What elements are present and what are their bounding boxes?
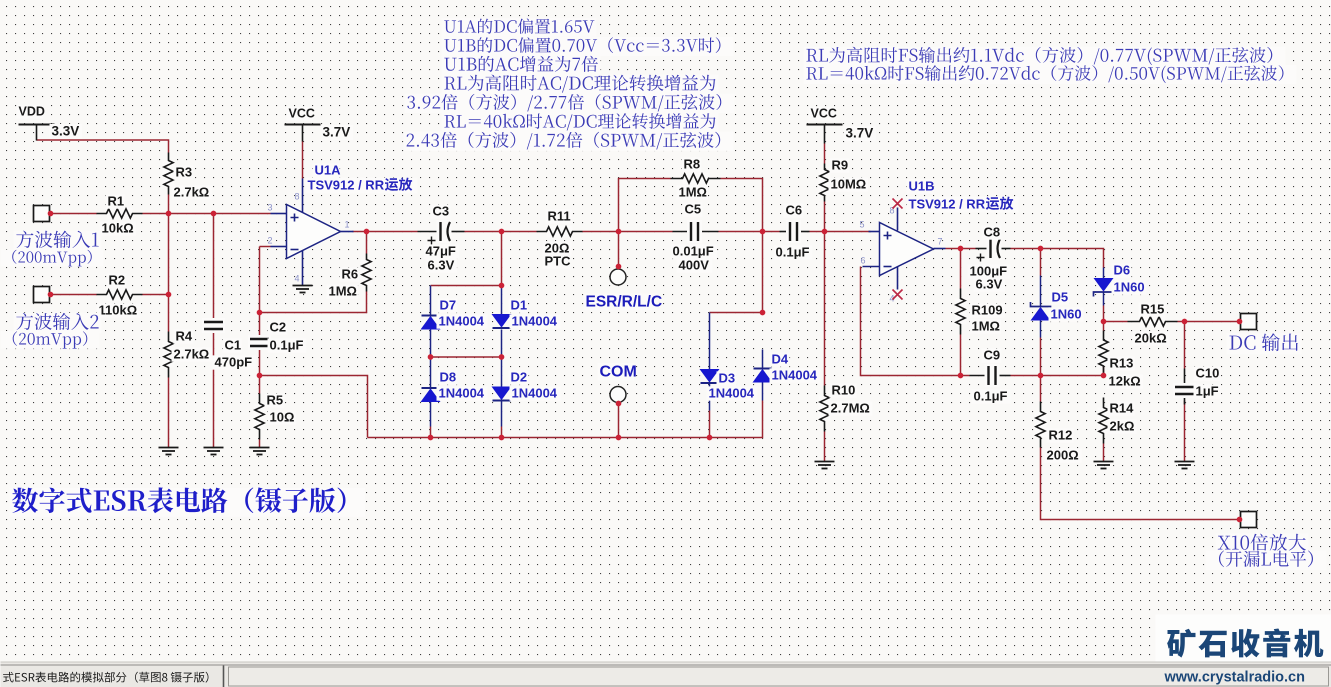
op-amp U1B TSV912 (859, 179, 945, 304)
svg-text:6.3V: 6.3V (428, 258, 455, 273)
wire C1 to ground (213, 330, 215, 448)
wire R109 top (960, 249, 962, 289)
wire U1B output to C8 (946, 248, 976, 250)
resistor R4 2.7k (163, 329, 213, 378)
svg-text:D1: D1 (511, 298, 528, 313)
capacitor C5 0.01uF 400V (671, 202, 719, 273)
wire clamp mid rail (431, 356, 502, 358)
wire D8 to bottom rail (430, 427, 432, 438)
capacitor C6 0.1uF (774, 203, 813, 260)
svg-text:0.1μF: 0.1μF (776, 245, 810, 260)
wire D6 lead lower (1103, 293, 1105, 306)
svg-text:R2: R2 (109, 273, 126, 288)
connector input2 (34, 287, 50, 303)
svg-text:C5: C5 (685, 202, 702, 217)
resistor R6 1M (327, 254, 373, 299)
wire R9 to main node (824, 202, 826, 232)
svg-text:5: 5 (859, 220, 864, 230)
svg-text:C10: C10 (1196, 366, 1220, 381)
wire R14 bottom to ground (1103, 444, 1105, 462)
svg-text:D7: D7 (440, 298, 457, 313)
wire R11 to ESR node (583, 231, 673, 233)
wire R3 bottom through node A to node B (168, 195, 170, 295)
svg-text:8: 8 (294, 192, 299, 202)
wire R10 top (824, 232, 826, 386)
svg-text:1N4004: 1N4004 (512, 314, 558, 329)
svg-text:20kΩ: 20kΩ (1135, 331, 1167, 346)
wire D3 upper lead (709, 313, 711, 370)
wire C2 top (259, 313, 261, 339)
node ESR/R/L/C probe (584, 269, 663, 311)
annotation DC output label (1227, 333, 1302, 354)
svg-text:1MΩ: 1MΩ (972, 319, 1000, 334)
wire U1B inverting feedback loop (861, 267, 961, 376)
ground R14 (1094, 462, 1114, 469)
annotation input1 label (1, 230, 104, 266)
svg-text:0.1μF: 0.1μF (270, 338, 304, 353)
wire D6 lead upper (1103, 268, 1105, 279)
svg-text:0.01μF: 0.01μF (673, 244, 714, 259)
diode D1 1N4004 (493, 298, 561, 329)
svg-text:VDD: VDD (19, 105, 45, 119)
diode D8 1N4004 (422, 370, 488, 402)
watermark logo text (1167, 629, 1323, 658)
svg-text:1N60: 1N60 (1114, 280, 1145, 295)
resistor R9 10M (819, 158, 868, 202)
svg-text:R14: R14 (1110, 401, 1135, 416)
wire node C2 to bottom rail (260, 376, 368, 438)
svg-text:2.7kΩ: 2.7kΩ (174, 347, 210, 362)
svg-text:C1: C1 (225, 338, 242, 353)
ground U1A pin4 (293, 286, 313, 293)
annotation top right block (804, 47, 1297, 84)
wire R109 bottom (960, 335, 962, 376)
wire R2 to node B (143, 294, 169, 296)
ground C10 (1175, 462, 1195, 469)
wire U1A inverting input feedback (260, 247, 271, 313)
wire input2 to R2 (51, 294, 97, 296)
wire R13 node to R13 (1103, 367, 1105, 376)
svg-text:www.crystalradio.cn: www.crystalradio.cn (1164, 670, 1305, 686)
wire U1A output to C3 (353, 231, 418, 233)
svg-text:0.1μF: 0.1μF (974, 389, 1008, 404)
annotation X10 output label (1206, 533, 1327, 570)
node COM probe (598, 363, 637, 402)
svg-text:6: 6 (860, 256, 865, 266)
wire bottom rail (368, 401, 763, 438)
wire D3 lower lead (709, 384, 711, 411)
label U1A part name (306, 178, 418, 194)
svg-text:47μF: 47μF (426, 244, 456, 259)
resistor R15 20k (1128, 302, 1178, 346)
wire VCC2 to R9 (824, 144, 826, 164)
svg-text:D6: D6 (1114, 263, 1131, 278)
svg-text:VCC: VCC (811, 107, 837, 121)
svg-text:R5: R5 (267, 393, 284, 408)
svg-text:TSV912 / RR: TSV912 / RR (308, 178, 385, 193)
wire C6 right to R9 node (810, 231, 871, 233)
resistor R2 110k (97, 273, 143, 318)
wire R8 loop right (721, 179, 763, 232)
wire D5 top (1040, 249, 1042, 276)
svg-text:R10: R10 (832, 383, 856, 398)
wire R6 top to output node (366, 232, 368, 254)
svg-text:VCC: VCC (289, 107, 315, 121)
wire R5 bottom to ground (259, 440, 261, 448)
wire R1 to op-amp noninverting input (143, 213, 271, 215)
diode D2 1N4004 (493, 370, 561, 401)
diode D7 1N4004 (422, 298, 488, 330)
title (10, 488, 365, 517)
svg-text:PTC: PTC (545, 254, 572, 269)
capacitor C9 0.1uF (970, 348, 1011, 404)
svg-text:3.7V: 3.7V (323, 125, 351, 140)
svg-text:400V: 400V (679, 258, 710, 273)
resistor R10 2.7M (819, 383, 873, 432)
svg-text:ESR/R/L/C: ESR/R/L/C (586, 294, 663, 311)
wire D5 lower lead (1040, 321, 1042, 338)
wire D5 upper lead (1040, 276, 1042, 307)
svg-text:COM: COM (600, 364, 637, 381)
wire C8 to D6 column (1011, 249, 1104, 268)
diode D3 1N4004 (701, 370, 758, 401)
svg-text:2: 2 (267, 236, 272, 246)
svg-text:1N4004: 1N4004 (439, 386, 485, 401)
svg-text:470pF: 470pF (215, 355, 253, 370)
power VCC 3.7V (U1A) (285, 107, 353, 179)
svg-text:C2: C2 (270, 320, 287, 335)
wire VDD rail to R3 (37, 140, 169, 153)
status bar (1, 662, 1331, 687)
wire R5 top (259, 376, 261, 394)
resistor R3 2.7k (163, 153, 213, 200)
wire D2 upper lead (501, 357, 503, 387)
resistor R109 1M (955, 289, 1005, 335)
svg-text:D3: D3 (719, 371, 736, 386)
svg-text:R1: R1 (108, 194, 125, 209)
connector X10 output (1241, 512, 1257, 528)
resistor R14 2k (1098, 398, 1137, 444)
svg-text:TSV912 / RR: TSV912 / RR (909, 197, 986, 212)
wire R10 bottom to ground (824, 432, 826, 462)
svg-text:D5: D5 (1052, 290, 1069, 305)
svg-text:2.7MΩ: 2.7MΩ (831, 401, 870, 416)
svg-text:C9: C9 (984, 348, 1001, 363)
svg-text:1N4004: 1N4004 (512, 386, 558, 401)
connector DC output (1241, 314, 1257, 330)
svg-text:R6: R6 (342, 267, 359, 282)
svg-text:1: 1 (345, 220, 350, 230)
wire D5 to node (1040, 338, 1042, 376)
ground R4 (159, 448, 179, 455)
svg-text:10Ω: 10Ω (270, 410, 295, 425)
wire R12 to X10 output (1041, 448, 1240, 520)
ground R10 (815, 462, 835, 469)
wire ESR probe drop (618, 232, 620, 267)
resistor R1 10k (97, 194, 143, 236)
annotation top center block (404, 18, 735, 151)
op-amp U1A TSV912 (267, 163, 353, 286)
power VCC 3.7V (U1B) (807, 107, 876, 144)
svg-text:110kΩ: 110kΩ (99, 303, 138, 318)
wire D4 lower lead (762, 382, 764, 401)
capacitor C1 470pF (202, 318, 256, 370)
resistor R12 200 (1035, 402, 1082, 463)
capacitor C3 47uF polarized (418, 204, 465, 273)
svg-text:7: 7 (938, 237, 943, 247)
wire D8 lower lead (430, 402, 432, 427)
wire R15 to DC output (1178, 321, 1240, 323)
wire node B to R4 (168, 295, 170, 332)
capacitor C10 1uF (1173, 366, 1221, 405)
wire C5C6 node down to clamp D3 D4 (710, 232, 763, 313)
svg-text:R15: R15 (1141, 302, 1165, 317)
svg-text:U1A: U1A (315, 163, 342, 178)
wire D1 lower lead (501, 330, 503, 358)
wire D4 upper lead (762, 350, 764, 369)
resistor R13 12k (1098, 331, 1144, 389)
wire C9 right to R13R14 node (1011, 375, 1104, 377)
diode D4 1N4004 (754, 352, 821, 383)
wire COM probe drop (618, 404, 620, 438)
wire C10 top (1184, 322, 1186, 369)
diode D6 1N60 (1094, 263, 1147, 297)
resistor R8 1M (671, 157, 721, 200)
svg-text:4: 4 (294, 274, 299, 284)
svg-text:10MΩ: 10MΩ (831, 177, 867, 192)
ground R5 (250, 448, 270, 455)
wire C2 bottom (259, 347, 261, 376)
annotation input2 label (1, 313, 102, 349)
svg-text:U1B: U1B (909, 179, 935, 194)
wire R4 to ground (168, 378, 170, 448)
svg-text:R9: R9 (832, 158, 849, 173)
wire clamp branch down and left (431, 232, 502, 286)
svg-text:2.7kΩ: 2.7kΩ (174, 185, 210, 200)
svg-text:3.3V: 3.3V (52, 124, 80, 139)
svg-text:R13: R13 (1110, 356, 1134, 371)
wire node A to C1 (213, 214, 215, 322)
wire D6 to R13 node (1103, 306, 1105, 331)
wire D2 to bottom rail (501, 427, 503, 438)
no-connect X U1B pin8 (893, 199, 903, 209)
wire D3 to bottom rail (709, 411, 711, 438)
svg-text:C6: C6 (786, 203, 803, 218)
wire D2 lower lead (501, 401, 503, 427)
wire R15 left (1104, 321, 1128, 323)
svg-text:D8: D8 (440, 370, 457, 385)
wire input1 to R1 (51, 213, 97, 215)
svg-text:12kΩ: 12kΩ (1109, 374, 1141, 389)
svg-text:1MΩ: 1MΩ (679, 185, 707, 200)
svg-text:1N4004: 1N4004 (709, 386, 755, 401)
svg-text:1MΩ: 1MΩ (329, 284, 357, 299)
wire R12 top (1040, 376, 1042, 402)
diode D5 1N60 (1031, 290, 1084, 322)
wire C9 left (961, 375, 970, 377)
resistor R5 10 (254, 393, 297, 440)
svg-text:R109: R109 (972, 303, 1003, 318)
svg-text:3.7V: 3.7V (846, 126, 874, 141)
wire C5 right to node (719, 231, 780, 233)
wire D1 upper lead (501, 286, 503, 315)
svg-text:C3: C3 (433, 204, 450, 219)
svg-text:10kΩ: 10kΩ (102, 221, 134, 236)
wire C3 to R11 node (465, 231, 537, 233)
wire clamp top link (430, 286, 432, 316)
svg-text:3: 3 (267, 203, 272, 213)
ground C1 (204, 448, 224, 455)
svg-text:1N4004: 1N4004 (439, 314, 485, 329)
svg-text:1μF: 1μF (1196, 384, 1219, 399)
sheet tab text (3, 672, 208, 683)
svg-text:D2: D2 (511, 370, 528, 385)
svg-text:C8: C8 (984, 225, 1001, 240)
no-connect X U1B pin4 (893, 290, 903, 300)
svg-text:R11: R11 (548, 209, 571, 224)
capacitor C8 100uF polarized (968, 225, 1011, 292)
wire D8 upper lead (430, 357, 432, 388)
capacitor C2 0.1uF (248, 320, 306, 353)
svg-text:R12: R12 (1049, 428, 1073, 443)
wire C10 bottom to ground (1184, 401, 1186, 462)
svg-text:D4: D4 (772, 352, 789, 367)
wire D7 lower lead (430, 329, 432, 358)
svg-text:2kΩ: 2kΩ (1110, 419, 1135, 434)
wire R6 bottom loop (260, 292, 367, 313)
svg-text:R4: R4 (176, 329, 193, 344)
wire R8 loop left (619, 179, 671, 232)
svg-text:1N60: 1N60 (1051, 307, 1082, 322)
connector input1 (34, 206, 50, 222)
svg-text:6.3V: 6.3V (976, 277, 1003, 292)
watermark logo panel (1156, 615, 1331, 662)
svg-text:1N4004: 1N4004 (772, 368, 818, 383)
svg-text:200Ω: 200Ω (1047, 448, 1079, 463)
label U1B part name (907, 197, 1019, 213)
svg-text:R8: R8 (684, 157, 701, 172)
svg-text:R3: R3 (176, 165, 193, 180)
resistor R11 20 PTC (537, 209, 583, 269)
power VDD 3.3V (17, 105, 82, 141)
